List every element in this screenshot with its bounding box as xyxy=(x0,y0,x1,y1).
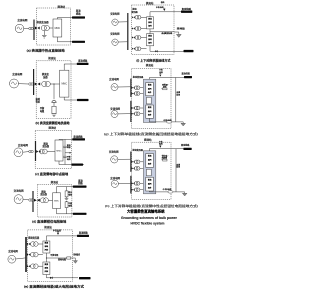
converter station dashed box (h) xyxy=(132,142,172,199)
svg-text:MMC: MMC xyxy=(54,200,59,202)
svg-text:(g) 上下对称单极接线(直流侧金属回线经接地极接地方式): (g) 上下对称单极接线(直流侧金属回线经接地极接地方式) xyxy=(104,132,198,136)
svg-text:MMC: MMC xyxy=(55,28,61,30)
svg-text:(c) 直流侧电容中点接地: (c) 直流侧电容中点接地 xyxy=(35,171,68,176)
wire (a) ct to MMC xyxy=(49,27,53,29)
bus (c) xyxy=(33,141,38,161)
ground (g) electrode xyxy=(181,122,186,126)
svg-text:中性母线: 中性母线 xyxy=(163,187,172,191)
breaker (h) row 3 xyxy=(132,182,135,184)
DC line bar top (h) xyxy=(183,148,191,150)
converter transformer (g) row 4 xyxy=(134,112,140,116)
bus (h) upper xyxy=(128,152,133,172)
svg-text:换流站: 换流站 xyxy=(146,63,154,67)
bus (b) xyxy=(31,69,36,95)
converter transformer (a) xyxy=(41,25,49,30)
wire (g) row 2 to valve box xyxy=(140,93,144,95)
MMC converter U1 (a) xyxy=(53,19,62,37)
converter station dashed box (a) xyxy=(37,8,71,45)
DC line bar bottom (c) xyxy=(72,164,84,166)
breaker (e) row 2 xyxy=(27,253,30,255)
svg-text:直流: 直流 xyxy=(76,8,81,12)
balance resistor R1 (b) xyxy=(52,106,56,113)
svg-text:大容量柔性直流输电系统: 大容量柔性直流输电系统 xyxy=(127,208,165,213)
converter station dashed box (c) xyxy=(35,130,71,168)
wire (e) row 2 to valve box xyxy=(38,254,43,256)
valve group box 2 (g) xyxy=(146,105,154,118)
wire (e) neutral to electrode xyxy=(46,257,66,259)
clamp resistor R2 (d) xyxy=(65,191,68,197)
valve group box 1 (e) xyxy=(43,241,50,253)
svg-text:交流电网: 交流电网 xyxy=(110,32,120,36)
converter transformer (c) xyxy=(39,149,47,154)
leader line (h) xyxy=(161,156,168,161)
valve group box 1 (g) xyxy=(146,83,154,96)
wire (h) row 4 to valve box xyxy=(140,189,144,191)
svg-text:换流站: 换流站 xyxy=(44,225,52,229)
metallic return line (g) xyxy=(175,78,177,122)
wire (e) DC negative out xyxy=(46,275,78,278)
DC line bar top (b) xyxy=(77,63,89,65)
svg-text:直流: 直流 xyxy=(78,178,83,182)
converter station dashed box (g) xyxy=(132,69,172,129)
wire (g) DC positive out xyxy=(149,78,184,80)
svg-text:(f) 上下对称单极接线方式: (f) 上下对称单极接线方式 xyxy=(136,59,170,63)
grounding reactor L1 (b) xyxy=(52,100,57,102)
breaker (g) row 2 xyxy=(132,92,135,94)
wire (e) series connector xyxy=(45,253,47,262)
wire (b) star point down xyxy=(53,84,55,99)
clamp chain (d) xyxy=(66,187,68,191)
transformer T2 xyxy=(29,83,34,86)
wire (e) source to bus xyxy=(16,258,26,259)
svg-text:金属: 金属 xyxy=(176,162,180,166)
wire (c) capacitor middle xyxy=(64,147,66,152)
DC line bar bottom (f) xyxy=(184,50,194,52)
wire (b) source to transformer xyxy=(19,83,29,85)
capacitor C2 (c) xyxy=(64,153,66,156)
svg-text:(d) 直流侧钳位电阻接地: (d) 直流侧钳位电阻接地 xyxy=(32,218,66,223)
DC line bar top (d) xyxy=(73,186,87,188)
svg-text:钳位: 钳位 xyxy=(68,190,72,194)
svg-text:Grounding schemes of bulk powe: Grounding schemes of bulk power xyxy=(121,216,178,220)
AC source G5 xyxy=(8,255,16,263)
wire (f) electrode stub xyxy=(174,31,179,33)
wire (g) row 1 to valve box xyxy=(140,87,144,89)
wire (f) DC negative out xyxy=(150,46,184,52)
AC source G6 xyxy=(112,19,118,25)
wire (f) row 3 to valve box xyxy=(141,37,147,39)
wire (f) row 2 to valve box xyxy=(141,28,147,30)
wire (a) transformer to bus xyxy=(32,28,35,30)
transformer T3 xyxy=(29,150,34,153)
wire (d) DC negative out xyxy=(57,209,85,214)
converter transformer (f) row 3 xyxy=(135,36,141,40)
ground (f) electrode xyxy=(176,32,181,37)
bus (h) lower xyxy=(128,176,133,194)
breaker (f) row 1 xyxy=(132,16,135,18)
MMC converter U3 (c) xyxy=(55,140,63,161)
metallic return line (h) xyxy=(175,149,177,192)
wire (e) DC positive out xyxy=(46,236,77,241)
wire (d) ct to MMC xyxy=(48,199,52,201)
converter station dashed box (f) xyxy=(132,5,175,55)
DC line bar top (g) xyxy=(184,76,192,78)
svg-text:换流站: 换流站 xyxy=(146,1,154,5)
svg-text:HVDC flexible system: HVDC flexible system xyxy=(131,222,165,226)
wire (f) mid metallic return xyxy=(149,29,151,34)
breaker (h) row 1 xyxy=(132,161,135,163)
grounding resistor R4 (e) xyxy=(67,257,71,259)
bus (g) upper xyxy=(128,79,133,97)
arrester symbol (g) xyxy=(163,88,167,90)
svg-text:避雷器: 避雷器 xyxy=(162,82,168,86)
DC line bar top (a) xyxy=(72,16,85,18)
midpoint tap arrow (c) xyxy=(65,152,70,154)
wire (a) DC positive out xyxy=(57,18,84,20)
AC source G3 xyxy=(14,148,23,157)
ground (e) electrode xyxy=(73,258,77,263)
node (e) neutral tap xyxy=(46,258,47,259)
DC line bar bottom (d) xyxy=(73,213,87,215)
wire (c) DC positive out xyxy=(59,138,84,141)
node (b) star point xyxy=(53,83,54,84)
DC line bar top (f) xyxy=(181,11,192,13)
wire (a) neutral down xyxy=(43,31,45,36)
ground (a) neutral xyxy=(42,35,47,38)
svg-text:平衡电阻: 平衡电阻 xyxy=(50,253,58,257)
svg-text:换流站: 换流站 xyxy=(57,5,65,9)
wire (e) row 1 to valve box xyxy=(38,243,43,245)
svg-text:中性母线: 中性母线 xyxy=(156,5,164,9)
svg-text:直流线路: 直流线路 xyxy=(182,72,191,76)
DC line bar bottom (e) xyxy=(79,277,91,279)
AC source G9 xyxy=(111,111,118,118)
svg-text:交流电网: 交流电网 xyxy=(109,150,119,154)
svg-text:(a) 换流器中性点直接接地: (a) 换流器中性点直接接地 xyxy=(27,48,65,53)
svg-text:换流: 换流 xyxy=(132,7,136,11)
svg-text:金属回线: 金属回线 xyxy=(161,31,172,35)
wire (b) DC negative out xyxy=(64,97,84,100)
wire (g) row 3 to valve box xyxy=(140,107,144,109)
svg-text:交流电网: 交流电网 xyxy=(14,189,25,193)
svg-text:直流: 直流 xyxy=(67,143,71,147)
converter transformer (h) row 3 xyxy=(134,182,140,186)
converter transformer (h) row 4 xyxy=(134,188,140,192)
wire (g) neutral bottom out xyxy=(149,118,183,122)
breaker (g) row 3 xyxy=(132,107,135,109)
wire (f) source2 to bus xyxy=(118,41,127,43)
svg-text:换流变压器: 换流变压器 xyxy=(133,148,144,152)
wire (f) row 1 to valve box xyxy=(141,16,147,18)
svg-text:交流电网: 交流电网 xyxy=(110,176,120,180)
breaker (e) row 3 xyxy=(27,265,30,267)
svg-text:(b) 换流变阀侧经电抗接地: (b) 换流变阀侧经电抗接地 xyxy=(36,120,70,125)
neutral device (h) xyxy=(168,191,173,193)
breaker (h) row 2 xyxy=(132,167,135,169)
svg-text:接地极线: 接地极线 xyxy=(73,253,80,257)
disconnector (e) top xyxy=(57,232,59,235)
svg-text:钳位电: 钳位电 xyxy=(162,154,168,158)
svg-text:交流电网: 交流电网 xyxy=(109,77,119,81)
svg-text:平衡: 平衡 xyxy=(67,155,71,159)
MMC converter U2 (b) xyxy=(60,70,69,97)
svg-text:平衡: 平衡 xyxy=(68,201,72,205)
svg-text:直流线路: 直流线路 xyxy=(78,58,88,62)
ground (b) xyxy=(52,114,56,117)
MMC converter U4 (d) xyxy=(53,193,61,209)
disconnector (f) bottom xyxy=(155,50,157,52)
ground (d) midpoint xyxy=(66,197,68,198)
converter transformer (f) row 1 xyxy=(135,15,141,19)
converter transformer (e) row 3 xyxy=(31,264,39,269)
wire (e) row 3 to valve box xyxy=(38,265,43,267)
wire (f) source1 to bus xyxy=(118,21,127,23)
wire (h) DC positive out xyxy=(149,149,183,151)
wire (f) DC positive out xyxy=(150,12,181,17)
valve group box 1 (f) xyxy=(147,17,154,29)
AC source G1 xyxy=(15,24,24,33)
wire (d) DC positive out xyxy=(57,187,85,193)
breaker (g) row 4 xyxy=(132,113,135,115)
wire (h) neutral bottom out xyxy=(149,190,184,193)
svg-text:换流站: 换流站 xyxy=(144,138,152,142)
wire (h) source2 to bus xyxy=(118,183,130,185)
converter transformer (e) row 2 xyxy=(31,252,39,257)
svg-text:换流站: 换流站 xyxy=(48,56,56,60)
AC source G8 xyxy=(111,84,118,91)
valve hall box (h) xyxy=(143,151,155,194)
wire (b) reactor to resistor xyxy=(53,102,55,106)
svg-text:换流变压器: 换流变压器 xyxy=(133,75,144,79)
wire (h) source1 to bus xyxy=(118,158,130,160)
svg-text:换流站: 换流站 xyxy=(49,126,57,130)
breaker (e) row 1 xyxy=(27,243,30,245)
svg-text:换流: 换流 xyxy=(41,190,46,194)
svg-text:直流线路: 直流线路 xyxy=(181,143,190,147)
breaker (b) xyxy=(35,83,41,86)
converter transformer (g) row 1 xyxy=(134,86,140,90)
DC capacitor box (h) xyxy=(147,169,152,176)
breaker (f) row 3 xyxy=(132,36,135,38)
svg-text:直流线路: 直流线路 xyxy=(182,7,192,11)
svg-text:直流线路: 直流线路 xyxy=(73,135,83,139)
ground (h) electrode xyxy=(182,192,187,196)
clamp symbol (h) xyxy=(163,159,167,161)
svg-text:交流电网: 交流电网 xyxy=(8,249,18,253)
svg-text:平衡: 平衡 xyxy=(40,106,45,110)
converter station dashed box (b) xyxy=(36,61,71,119)
bus (f) xyxy=(125,13,130,50)
wire (e) resistor to ground xyxy=(71,257,76,259)
svg-text:换流变压器: 换流变压器 xyxy=(28,235,40,239)
capacitor C1 (c) xyxy=(63,145,66,147)
wire (d) chain to DC negative xyxy=(66,208,68,214)
breaker (f) row 2 xyxy=(132,27,135,29)
svg-text:(h) 上下对称单极接线(直流侧中性点经钳位电阻接地方式): (h) 上下对称单极接线(直流侧中性点经钳位电阻接地方式) xyxy=(105,204,198,208)
AC source G10 xyxy=(111,156,118,163)
neutral device (g) xyxy=(167,121,172,123)
DC line bar bottom (b) xyxy=(77,99,89,101)
disconnector (f) top xyxy=(163,8,165,11)
converter transformer (d) xyxy=(40,198,48,203)
AC source G2 xyxy=(10,79,19,88)
converter transformer (f) row 4 xyxy=(135,47,141,51)
converter transformer (g) row 3 xyxy=(134,106,140,110)
svg-text:交流电网: 交流电网 xyxy=(110,106,120,110)
capacitor chain (c) xyxy=(64,139,66,146)
breaker (f) row 4 xyxy=(132,48,135,50)
converter transformer (h) row 2 xyxy=(134,167,140,171)
breaker (a) xyxy=(35,27,40,30)
wire (g) source2 to bus xyxy=(118,113,130,115)
svg-text:交流电网: 交流电网 xyxy=(17,18,28,22)
DC line bar bottom (a) xyxy=(72,41,85,43)
converter transformer (f) row 2 xyxy=(135,27,141,31)
DC line bar top (e) xyxy=(77,235,89,237)
AC source G7 xyxy=(112,39,118,45)
wire (b) ct to MMC xyxy=(50,83,59,85)
wire (f) row 4 to valve box xyxy=(141,48,147,50)
svg-text:换流: 换流 xyxy=(44,141,49,145)
svg-text:MMC: MMC xyxy=(56,150,62,152)
wire (a) DC negative out xyxy=(57,37,84,42)
svg-text:MMC: MMC xyxy=(62,83,68,85)
valve hall box (g) xyxy=(143,79,155,122)
converter station dashed box (e) xyxy=(28,230,73,282)
svg-text:极线: 极线 xyxy=(161,0,165,4)
svg-text:金属: 金属 xyxy=(176,90,180,94)
bus (e) xyxy=(23,237,29,272)
leader line (g) xyxy=(161,84,168,89)
svg-text:接地极: 接地极 xyxy=(177,27,185,31)
svg-text:换流站: 换流站 xyxy=(51,180,59,184)
wire (h) row 3 to valve box xyxy=(140,182,144,184)
clamp resistor R3 (d) xyxy=(65,202,68,208)
bus (a) xyxy=(32,20,37,41)
valve group box 1 (h) xyxy=(146,154,154,168)
wire (a) source to transformer xyxy=(24,28,29,30)
converter transformer (h) row 1 xyxy=(134,160,140,164)
transformer T1 xyxy=(29,27,34,30)
breaker (g) row 1 xyxy=(132,87,135,89)
disconnector (g) top xyxy=(159,74,161,77)
svg-text:交流电网: 交流电网 xyxy=(12,72,23,76)
valve group box 2 (h) xyxy=(146,177,154,191)
svg-text:交流电网: 交流电网 xyxy=(110,11,120,15)
svg-text:中性: 中性 xyxy=(159,140,163,144)
wire (c) ct to MMC xyxy=(47,151,55,153)
wire (h) row 1 to valve box xyxy=(140,161,144,163)
transformer T4 xyxy=(29,199,34,202)
bus (d) xyxy=(31,191,36,212)
valve group box 2 (f) xyxy=(147,33,154,45)
svg-text:换流变压器: 换流变压器 xyxy=(37,20,50,24)
DC capacitor box (g) xyxy=(147,97,152,104)
wire (h) row 2 to valve box xyxy=(140,167,144,169)
disconnector (e) bottom xyxy=(50,277,52,279)
valve group box 2 (e) xyxy=(43,262,50,275)
wire (c) DC negative out xyxy=(64,157,66,164)
svg-text:交流电网: 交流电网 xyxy=(18,143,29,147)
breaker (c) xyxy=(36,150,40,153)
AC source G4 xyxy=(14,195,23,204)
converter station dashed box (d) xyxy=(38,184,72,217)
converter transformer (e) row 1 xyxy=(31,242,39,247)
breaker (h) row 4 xyxy=(132,189,135,191)
wire (g) source1 to bus xyxy=(118,86,130,88)
wire (b) DC positive out xyxy=(64,64,84,70)
bus (g) lower xyxy=(128,101,133,122)
converter transformer (g) row 2 xyxy=(134,92,140,96)
wire (d) source to transformer xyxy=(23,198,29,201)
svg-text:(e) 直流侧经接地极(或大电阻)接地方式: (e) 直流侧经接地极(或大电阻)接地方式 xyxy=(24,285,84,289)
AC source G11 xyxy=(111,180,118,187)
disconnector (h) top xyxy=(159,145,161,148)
wire (c) source to transformer xyxy=(23,151,29,154)
svg-text:直流线路: 直流线路 xyxy=(79,231,89,235)
wire (g) row 4 to valve box xyxy=(140,113,144,115)
breaker (d) xyxy=(34,199,40,202)
DC line bar top (c) xyxy=(72,138,85,140)
converter transformer (b) xyxy=(42,81,51,86)
svg-text:换流变: 换流变 xyxy=(42,72,50,76)
